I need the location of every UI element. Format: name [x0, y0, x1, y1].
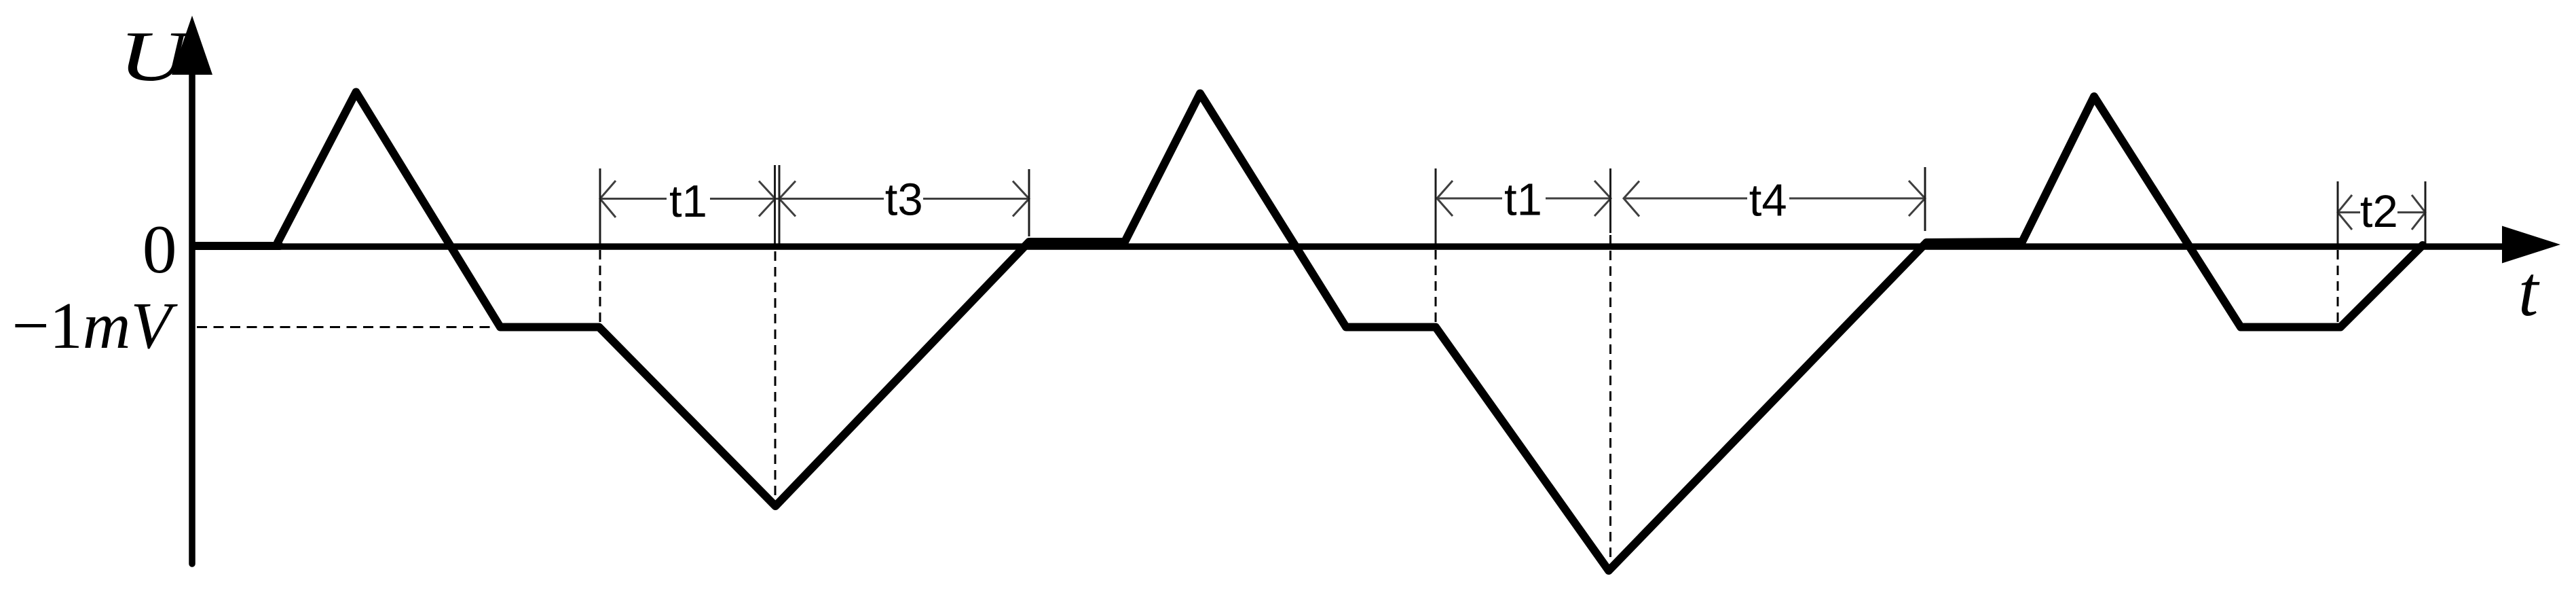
svg-text:t1: t1: [1504, 175, 1542, 226]
svg-text:t1: t1: [669, 176, 707, 227]
svg-text:t: t: [2518, 251, 2540, 331]
svg-text:0: 0: [143, 211, 177, 287]
svg-text:t3: t3: [885, 175, 923, 226]
svg-text:t2: t2: [2360, 186, 2398, 237]
svg-text:U: U: [119, 17, 193, 96]
svg-text:−1mV: −1mV: [12, 289, 179, 363]
svg-text:t4: t4: [1749, 175, 1787, 226]
